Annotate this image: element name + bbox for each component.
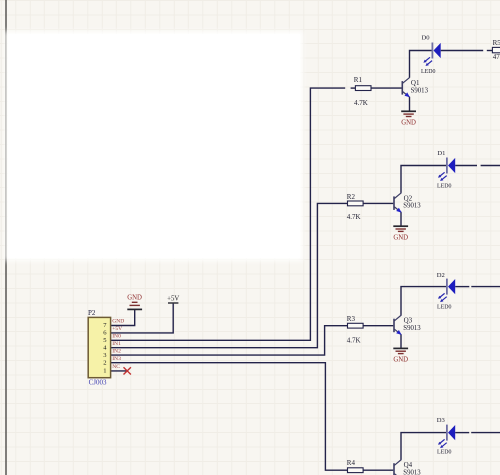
wire P2 pin7 to GND power port	[111, 310, 135, 326]
P2 pin 7	[103, 319, 124, 330]
P2 pin 4	[103, 341, 121, 352]
svg-text:R2: R2	[347, 193, 356, 201]
svg-text:D0: D0	[422, 35, 431, 42]
wire D0-R5 dash	[487, 50, 493, 52]
wire IN2 net: P2 pin3 to R3	[111, 326, 348, 355]
transistor Q4	[394, 460, 421, 475]
svg-text:S9013: S9013	[403, 203, 421, 210]
LED D2	[437, 272, 455, 310]
LED D0	[421, 35, 441, 76]
svg-text:S9013: S9013	[403, 325, 421, 332]
transistor Q3	[394, 315, 421, 335]
resistor R4	[347, 459, 363, 472]
svg-text:Q4: Q4	[404, 461, 413, 469]
svg-text:IN1: IN1	[112, 341, 121, 347]
P2 pin 6	[103, 326, 122, 337]
+5V power port above P2 pin6	[167, 295, 179, 303]
svg-text:S9013: S9013	[403, 470, 421, 475]
wire IN3 net: P2 pin2 to R4	[111, 363, 348, 471]
wire P2 pin6 to +5V power port	[111, 303, 173, 333]
svg-text:D1: D1	[437, 150, 445, 157]
wire Q2 emitter to ground	[400, 212, 402, 226]
wire R4 to Q4 base	[363, 469, 393, 471]
wire D1 right dash	[481, 165, 500, 167]
wire R3 to Q3 base	[363, 325, 393, 327]
svg-text:D2: D2	[437, 272, 445, 279]
sheet border	[5, 0, 7, 475]
svg-text:4.7K: 4.7K	[347, 213, 361, 221]
svg-text:LED0: LED0	[437, 183, 451, 189]
svg-text:4.7K: 4.7K	[354, 99, 368, 107]
svg-text:D3: D3	[437, 417, 446, 424]
wire IN0 net: P2 pin5 to R1	[111, 88, 345, 340]
ground power port above P2 pin7	[127, 295, 142, 310]
svg-text:GND: GND	[393, 357, 408, 364]
wire D0 to R5	[441, 50, 484, 52]
resistor R1	[354, 76, 371, 107]
wire IN0 dash at R1 left	[351, 87, 356, 89]
wire D3 to right edge	[455, 432, 469, 434]
wire R1 to Q1 base	[371, 87, 402, 89]
svg-text:R1: R1	[354, 76, 363, 84]
svg-text:NC: NC	[112, 364, 120, 370]
svg-text:GND: GND	[393, 235, 408, 242]
wire Q1 collector to D0	[410, 51, 433, 78]
svg-text:Q1: Q1	[411, 79, 420, 87]
svg-text:1: 1	[103, 368, 106, 375]
ground symbol below Q2	[393, 226, 408, 241]
wire D2 to right edge	[455, 286, 469, 288]
svg-text:GND: GND	[401, 120, 416, 127]
svg-text:4.7K: 4.7K	[347, 337, 361, 345]
wire IN1 net: P2 pin4 to R2	[111, 203, 348, 347]
wire R2 to Q2 base	[363, 202, 393, 204]
svg-text:IN0: IN0	[112, 334, 121, 340]
svg-text:IN3: IN3	[112, 356, 121, 362]
svg-text:Q2: Q2	[404, 194, 413, 202]
connector P2 body	[88, 309, 111, 386]
wire Q3 collector to D2	[401, 287, 447, 316]
resistor R5 (clipped at right edge)	[492, 39, 500, 61]
wire D2 right dash	[471, 286, 500, 288]
svg-text:GND: GND	[127, 295, 142, 302]
svg-text:+5V: +5V	[112, 326, 122, 332]
LED D1	[437, 150, 455, 189]
resistor R2	[347, 193, 363, 221]
svg-text:47: 47	[493, 53, 500, 61]
wire P2 pin1 stub	[111, 370, 127, 372]
P2 pin 5	[103, 334, 121, 345]
svg-text:R3: R3	[347, 315, 356, 323]
LED D3	[437, 417, 455, 456]
svg-text:R4: R4	[347, 459, 356, 467]
ground symbol below Q1	[401, 111, 416, 126]
wire Q1 emitter to ground	[409, 97, 411, 111]
svg-text:S9013: S9013	[411, 88, 429, 95]
no-ERC cross on P2 pin 1	[124, 367, 131, 374]
wire Q3 emitter to ground	[400, 334, 402, 348]
svg-text:Q3: Q3	[404, 317, 413, 325]
svg-text:GND: GND	[112, 319, 124, 325]
wire Q4 collector to D3	[401, 433, 447, 460]
transistor Q2	[394, 193, 421, 213]
svg-text:+5V: +5V	[167, 295, 179, 302]
svg-text:LED0: LED0	[421, 69, 435, 75]
wire D3 right dash	[471, 432, 500, 434]
svg-text:IN2: IN2	[112, 348, 121, 354]
svg-text:P2: P2	[88, 309, 96, 317]
wire D1 to right edge	[455, 165, 477, 167]
svg-text:2: 2	[103, 359, 106, 366]
svg-text:CJ003: CJ003	[89, 378, 107, 386]
P2 pin 3	[103, 348, 121, 359]
resistor R3	[347, 315, 363, 345]
svg-text:R5: R5	[493, 39, 500, 47]
P2 pin 1	[103, 364, 120, 375]
ground symbol below Q3	[393, 348, 408, 363]
white overlay rectangle	[8, 34, 300, 258]
svg-text:LED0: LED0	[437, 449, 451, 455]
svg-text:LED0: LED0	[437, 304, 451, 310]
P2 pin 2	[103, 356, 121, 367]
wire Q2 collector to D1	[401, 166, 447, 193]
transistor Q1	[402, 77, 428, 97]
